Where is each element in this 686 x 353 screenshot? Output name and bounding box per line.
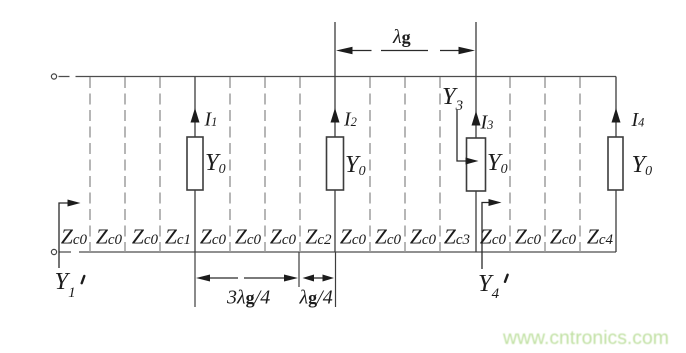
shunt stub admittance Y0 rectangle, stub 4 [608, 137, 623, 190]
wire stub 2 vertical (extends above line for dimension) [334, 22, 336, 252]
current arrow I4 [612, 108, 621, 123]
shunt stub admittance Y0 rectangle, stub 3 [467, 138, 486, 191]
admittance direction arrow Y1' [59, 203, 68, 268]
wire bottom main line [59, 251, 617, 253]
wire top main line [59, 76, 617, 78]
dimension arrowhead left (3lg/4) [196, 275, 210, 282]
svg-text:λg/4: λg/4 [299, 287, 333, 309]
prime mark of Y4' [505, 275, 508, 282]
dimension arrowhead right (3lg/4) [284, 275, 298, 282]
dimension arrowhead right (lambda-g) [459, 47, 476, 54]
port terminal circle, top left [51, 74, 56, 79]
shunt stub admittance Y0 rectangle, stub 2 [327, 137, 344, 190]
dimension extension line below stub 1 [194, 252, 196, 307]
port terminal circle, bottom left [51, 249, 56, 254]
impedance section labels Zc* [61, 225, 614, 249]
shunt stub admittance Y0 rectangle, stub 1 [187, 137, 203, 190]
current arrow I2 [331, 108, 340, 123]
wire stub 1 vertical [194, 77, 196, 253]
admittance direction arrow Y3 into stub 3 [457, 110, 466, 161]
dimension arrowhead left (lambda-g) [336, 47, 353, 54]
prime mark of Y1' [82, 276, 85, 283]
dimension arrowhead left (lg/4) [303, 275, 315, 282]
dimension extension line below stub 2 [335, 252, 337, 307]
dimension lambda-g/4 [313, 277, 324, 279]
dimension extension line middle (3/4 point) [298, 252, 300, 287]
wire stub 4 vertical [615, 77, 617, 253]
dimension 3*lambda-g/4 [209, 277, 286, 279]
section boundary dashed lines [90, 77, 580, 252]
admittance direction arrow Y4' [482, 203, 489, 270]
dimension arrowhead right (lg/4) [323, 275, 335, 282]
wire stub 3 vertical (extends above line for dimension) [475, 22, 477, 252]
current arrow I1 [191, 108, 200, 123]
dimension lambda-g between stub2 and stub3 [352, 50, 459, 52]
current arrow I3 [472, 111, 481, 126]
svg-text:3λg/4: 3λg/4 [226, 287, 270, 309]
svg-text:λg: λg [392, 26, 411, 48]
svg-text:www.cntronics.com: www.cntronics.com [502, 327, 669, 349]
